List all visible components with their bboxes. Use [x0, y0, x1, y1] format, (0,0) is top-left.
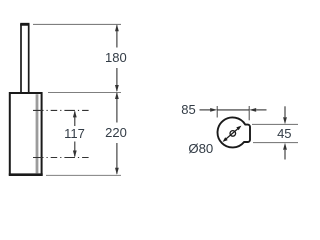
extension line bottom (holder bottom): [46, 174, 121, 176]
svg-text:117: 117: [64, 126, 85, 141]
inner wall line (gray): [36, 94, 39, 173]
dimension 220 line: [116, 93, 118, 122]
handle top cap: [20, 23, 29, 26]
svg-text:220: 220: [105, 125, 127, 140]
brush handle (front view): [21, 25, 29, 93]
svg-text:45: 45: [277, 126, 291, 141]
center hole circle: [230, 131, 236, 137]
svg-text:180: 180: [105, 50, 127, 65]
dimension 45 line with outside arrows: [284, 106, 286, 117]
dimension 85: extension line right: [248, 106, 250, 120]
dimension 45: extension line upper: [252, 123, 298, 125]
diameter arrow diagonal: [224, 127, 240, 141]
holder bottom edge (thicker): [9, 173, 43, 176]
dimension 45: extension line lower: [253, 142, 298, 144]
dimension 117 line lower segment: [74, 142, 76, 157]
svg-text:Ø80: Ø80: [188, 141, 213, 156]
dash-dot centerline lower: [33, 157, 91, 159]
svg-text:85: 85: [181, 102, 195, 117]
dimension 85 line with outside arrows: [217, 109, 249, 111]
extension line middle (holder top): [48, 92, 121, 94]
extension line top (handle top): [33, 23, 121, 25]
holder body (front view): [10, 93, 42, 175]
dimension 117 line upper segment: [74, 112, 76, 127]
dimension 180 line: [116, 25, 118, 47]
top view outline (cup + wall plate): [218, 117, 250, 147]
dash-dot centerline upper: [33, 109, 91, 111]
dimension 85: extension line left: [216, 106, 218, 118]
